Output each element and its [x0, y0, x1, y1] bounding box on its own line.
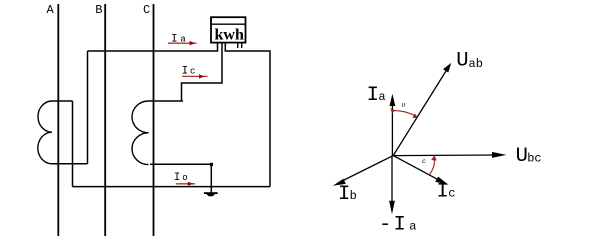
wire: right side of loop: [225, 43, 270, 187]
wire: CT-C top lead step up: [182, 43, 223, 101]
CT coil on phase C: [132, 101, 149, 165]
CT coil on phase A: [38, 101, 52, 164]
svg-text:c: c: [422, 158, 426, 165]
svg-text:I: I: [437, 181, 449, 204]
red current arrow Ic: [182, 74, 208, 78]
svg-text:I: I: [367, 84, 379, 107]
meter terminal stub: [241, 43, 243, 49]
svg-text:c: c: [190, 67, 195, 77]
svg-text:a: a: [409, 219, 416, 233]
svg-text:-: -: [379, 213, 391, 236]
svg-text:A: A: [47, 3, 55, 17]
phasor -Ia: [389, 156, 395, 215]
CT-A secondary bottom lead: [51, 163, 88, 165]
wire: common bottom return: [73, 186, 271, 188]
red current arrow Ia: [168, 41, 196, 46]
node: junction dot at ground tap: [210, 163, 213, 166]
svg-text:U: U: [516, 145, 528, 168]
svg-text:I: I: [338, 183, 350, 206]
svg-text:I: I: [174, 172, 181, 184]
meter terminal stub: [237, 43, 239, 49]
wire: CT-A top lead down to common bottom wire: [72, 101, 74, 187]
svg-text:B: B: [95, 3, 102, 17]
svg-text:C: C: [143, 3, 150, 17]
svg-text:U: U: [456, 49, 468, 72]
svg-text:ab: ab: [469, 57, 483, 71]
phase line C: [153, 4, 155, 236]
svg-text:I: I: [394, 213, 406, 236]
svg-text:u: u: [402, 102, 406, 109]
svg-text:bc: bc: [527, 152, 541, 166]
angle arc between Ia and Uab: [390, 102, 418, 119]
svg-text:c: c: [448, 187, 455, 201]
wire: junction down to ground: [210, 164, 212, 192]
wire: CT-A bottom lead up to Ia wire: [87, 51, 89, 164]
kwh meter box U1: [211, 17, 246, 43]
wire Ia: horizontal to kwh meter: [88, 43, 218, 51]
svg-text:b: b: [350, 189, 357, 203]
CT-C secondary top lead: [149, 100, 184, 102]
phasor Ubc: [393, 152, 506, 158]
phasor Ia: [390, 94, 396, 156]
phase line A: [57, 4, 59, 236]
CT-C secondary bottom lead to ground junction: [150, 163, 211, 165]
svg-text:kwh: kwh: [215, 27, 244, 44]
ground: [204, 192, 218, 196]
phasor Ib: [333, 156, 393, 186]
red current arrow Io: [176, 182, 195, 186]
svg-text:o: o: [182, 173, 187, 183]
CT-A secondary top lead: [52, 100, 73, 102]
phase line B: [104, 4, 106, 236]
phasor Uab: [393, 63, 451, 156]
angle arc between Ubc and Ic: [422, 155, 437, 175]
phasor Ic: [393, 156, 448, 185]
svg-text:a: a: [378, 90, 385, 104]
